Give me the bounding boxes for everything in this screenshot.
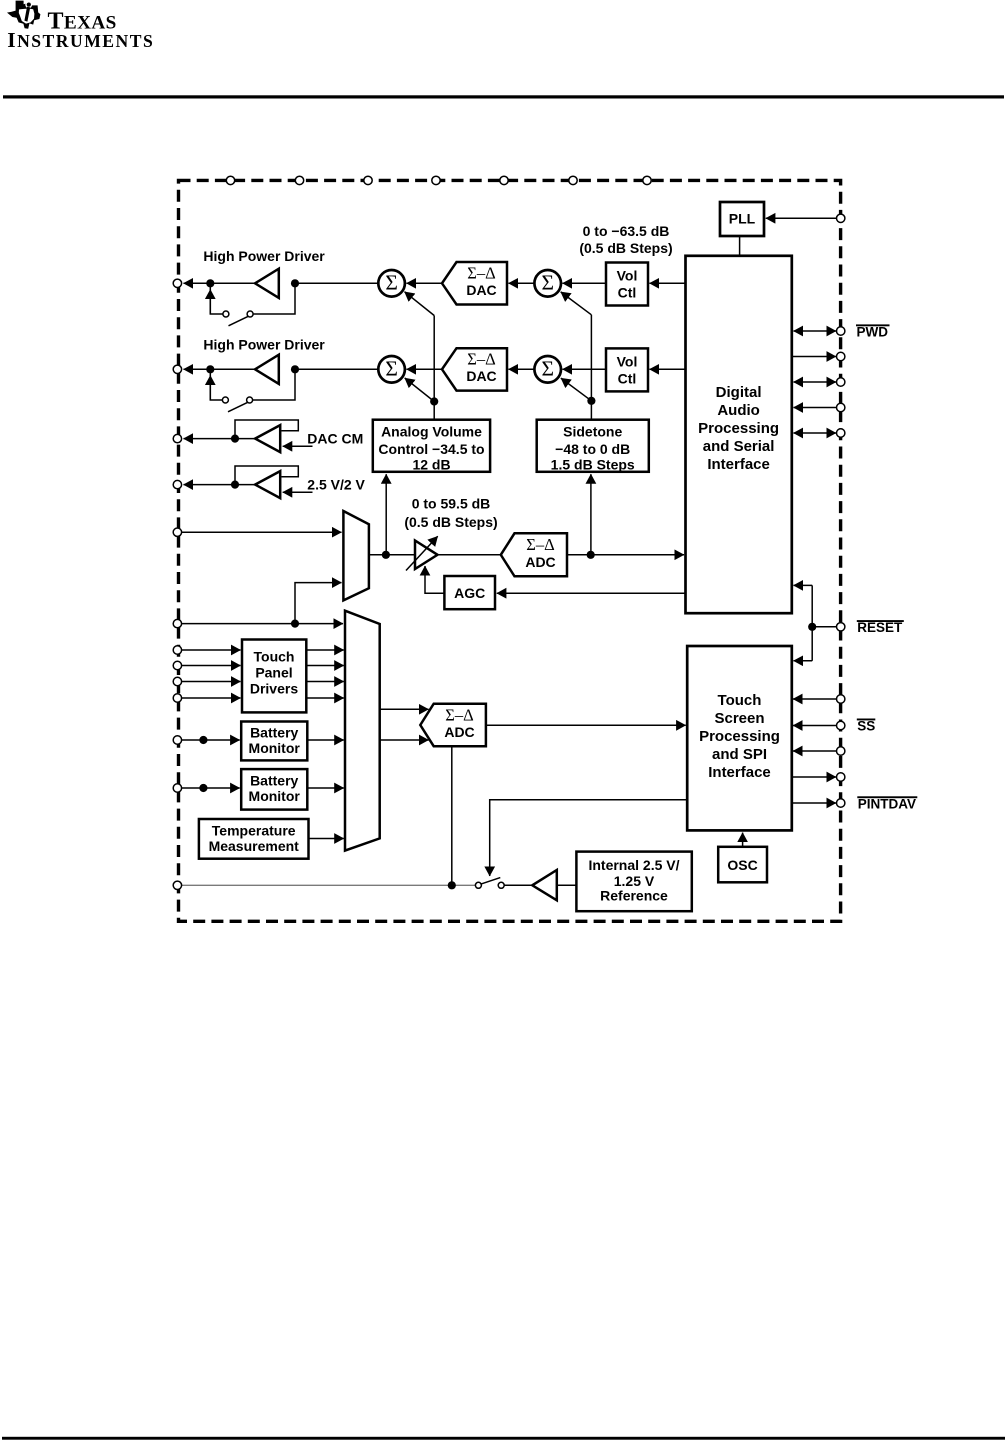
bottom horizontal rule [2,1437,1005,1440]
svg-text:PINTDAV: PINTDAV [858,796,916,811]
wire: right pin to PLL [766,217,836,219]
sidetone diagonal to summer U4 [561,378,592,401]
dashed chip boundary [179,180,841,921]
wire: TS box to switch select arrow [490,800,688,876]
high power driver 1 amplifier [255,269,279,298]
BM1 input wire [181,739,240,741]
overline: PWD [856,324,890,326]
wire: OSC to TS box [742,833,744,847]
input mux M2 [345,611,380,851]
svg-text:High Power Driver: High Power Driver [203,337,325,353]
svg-text:PWD: PWD [857,325,889,340]
svg-text:Analog Volume: Analog Volume [381,423,482,439]
Vol Ctl 2 box [606,348,648,391]
svg-text:Σ: Σ [385,270,398,294]
node: branch to mux M1 [291,620,299,628]
svg-text:(0.5 dB Steps): (0.5 dB Steps) [404,514,497,530]
wire: mux M1 out to PGA [369,554,415,556]
TPD input wires [181,649,241,651]
switch S1 blade [229,316,250,326]
svg-text:Sidetone: Sidetone [563,423,622,439]
svg-text:ADC: ADC [444,724,474,740]
OSC box [718,847,767,883]
switch S2 feed arrow up [209,376,211,401]
switch S1 (bypass) wire down [210,285,223,314]
wire: DAP to VolCtl2 [650,368,686,370]
input mux M1 [343,511,369,600]
left boundary pins [173,279,181,889]
svg-text:SS: SS [857,719,875,734]
overline: RESET [857,620,904,622]
wire: PLL to DAP [739,236,741,256]
node: HPD1 input junction [206,279,214,287]
sigma-delta DAC2 [442,348,507,390]
wire: buffer out to left pin [184,438,236,440]
wire: VolCtl1 to summer U2 [563,282,607,284]
RESET net [812,626,836,628]
svg-text:Battery: Battery [250,725,298,741]
BM2 input wire [181,787,240,789]
DAP output wire [792,356,836,358]
sidetone diagonal to summer U2 [561,292,592,315]
switch S2 blade [228,402,249,412]
node: sidetone junction [587,397,595,405]
svg-text:Σ–Δ: Σ–Δ [467,264,495,283]
Battery Monitor 2 box [241,769,307,810]
svg-text:Interface: Interface [707,456,770,473]
node: HPD1 output junction [291,279,299,287]
svg-text:and SPI: and SPI [712,746,767,763]
svg-text:Σ–Δ: Σ–Δ [445,705,473,724]
TI logo bug (Texas state with ti) [7,1,40,29]
arrow into AVC bottom [385,474,387,555]
node: 2.5V buffer output junction [231,481,239,489]
wire: ADC1 to DAP box [567,554,684,556]
node: AVC pickoff [382,551,390,559]
switch S1 feed arrow up [209,290,211,315]
svg-text:Touch: Touch [718,692,762,709]
arrow into Sidetone bottom [590,474,592,555]
switch S1 contact a [223,311,229,317]
svg-text:Temperature: Temperature [212,823,296,839]
node: HPD2 output junction [291,365,299,373]
svg-text:Ctl: Ctl [618,371,637,387]
Internal Reference box [576,852,691,912]
svg-text:PLL: PLL [729,211,756,227]
switch S1 wire to output [253,285,295,314]
switch S2 contact b [247,397,253,403]
svg-text:RESET: RESET [857,620,903,635]
TPD output wires to mux M2 [306,649,344,651]
wire: PGA to ADC1 [438,554,501,556]
svg-text:Processing: Processing [698,420,779,437]
PLL box [720,202,764,236]
wire: DAC1 to summer U1 [407,282,443,284]
BM1 output wire [307,739,344,741]
top horizontal rule [3,95,1004,98]
svg-text:Touch: Touch [254,649,295,665]
svg-text:Σ–Δ: Σ–Δ [467,350,495,369]
svg-text:Vol: Vol [617,268,638,284]
svg-text:DAC CM: DAC CM [307,431,363,447]
svg-text:Ctl: Ctl [618,285,637,301]
wire: DAP to AGC [497,592,686,594]
Sidetone box [537,420,649,472]
wire: summer U2 to DAC1 [509,282,535,284]
svg-text:OSC: OSC [727,857,757,873]
Digital Audio Processing box [686,256,792,613]
wires: mux M2 to ADC2 [380,708,429,710]
summer U4 row2 [534,356,561,383]
wire to amp [235,438,255,440]
svg-text:Monitor: Monitor [249,740,301,756]
A1 input arrow [283,445,313,447]
switch S2 wire to output [253,371,295,400]
svg-text:1.5 dB Steps: 1.5 dB Steps [551,457,635,473]
overline: SS [857,719,876,721]
wire: switch to ref buffer [504,884,532,886]
TS input wire [793,750,836,752]
sigma-delta DAC1 [442,262,507,305]
wire: sum to driver [295,368,378,370]
Temperature Measurement box [199,819,309,859]
svg-text:Processing: Processing [699,728,780,745]
Vol Ctl 1 box [606,263,648,306]
svg-text:Interface: Interface [708,764,771,781]
svg-text:Measurement: Measurement [209,838,300,854]
svg-text:DAC: DAC [466,368,496,384]
A2 feedback loop [235,466,298,485]
ti letters negative space [19,1,35,23]
AVC diagonal to summer U3 [405,378,435,402]
summer U1 row1 [378,270,405,297]
A1 feedback loop [235,420,298,439]
svg-text:Screen: Screen [714,710,764,727]
Touch Panel Drivers box [242,640,306,713]
wire: DAP to VolCtl1 [650,282,686,284]
Analog Volume Control box [373,420,490,472]
svg-text:Battery: Battery [250,773,298,789]
TEXAS INSTRUMENTS wordmark [7,9,154,53]
switch S2 contact a [222,397,228,403]
svg-text:DAC: DAC [466,282,496,298]
wire: ADC2 to Touch Screen box [486,724,686,726]
svg-text:0 to 59.5 dB: 0 to 59.5 dB [412,496,491,512]
sidetone vertical feed [590,315,592,420]
A2 input arrow [283,491,313,493]
svg-text:Σ: Σ [541,270,554,294]
sigma-delta ADC2 [420,704,486,747]
node: ADC2 ref junction [448,881,456,889]
Touch Screen Processing box [687,646,792,830]
TS input wire [793,698,836,700]
PWD bidirectional wire [794,330,837,332]
svg-text:Reference: Reference [600,887,668,903]
wire: HPD2 output to left pin [184,368,211,370]
node: AVC junction [430,397,438,405]
overline: PINTDAV [857,796,917,798]
node: RESET junction [808,623,816,631]
PINTDAV output wire [792,802,836,804]
summer U3 row2 [378,356,405,383]
PGA amplifier [415,541,438,570]
node: HPD2 input junction [206,365,214,373]
VREF rail wire (left, grey) [182,884,475,886]
svg-text:12 dB: 12 dB [412,457,450,473]
wire to amp [235,484,255,486]
wire: AGC to PGA gain arrow [425,566,444,593]
Battery Monitor 1 box [241,722,307,761]
wire: ref box to buffer [557,884,577,886]
node: sidetone pickoff [587,551,595,559]
wire: junction to driver input [210,368,255,370]
wire: DAC2 to summer U3 [407,368,443,370]
AVC vertical feed [433,316,435,420]
PGA variable-gain arrow [406,536,438,570]
svg-text:and Serial: and Serial [703,438,775,455]
top boundary pins [226,176,651,184]
wire: VolCtl2 to summer U4 [563,368,607,370]
svg-text:Drivers: Drivers [250,681,298,697]
sigma-delta ADC1 [501,533,567,576]
BM2 output wire [307,787,344,789]
wire: ADC2 down to VREF rail [451,746,453,885]
high power driver 2 amplifier [255,355,279,384]
DAP bidirectional wire [794,381,837,383]
svg-text:Σ: Σ [385,356,398,380]
svg-text:0 to −63.5 dB: 0 to −63.5 dB [583,223,670,239]
switch S2 wire down [210,371,222,400]
switch S3 contact b [498,882,504,888]
TS output wire [792,776,836,778]
wire: sum to driver [295,282,378,284]
switch S3 contact a [475,882,481,888]
wire: left pin to mux M1 input 1 [181,531,342,533]
svg-text:Panel: Panel [255,665,292,681]
svg-text:Control −34.5 to: Control −34.5 to [378,441,484,457]
AGC box [444,576,495,609]
AVC diagonal to summer U1 [405,292,435,316]
op-amp buffer A1 [255,425,280,452]
wire: left pin to mux M2 input 1 [181,623,343,625]
op-amp buffer A2 [255,471,280,498]
node: DAC CM output junction [231,435,239,443]
svg-text:(0.5 dB Steps): (0.5 dB Steps) [579,240,672,256]
node: BM2 tap [199,784,207,792]
wire: buffer out to left pin [184,484,236,486]
DAP input wire [794,407,837,409]
wire: junction to driver input [210,282,255,284]
svg-text:Monitor: Monitor [249,788,301,804]
svg-text:Digital: Digital [716,384,762,401]
svg-text:Σ: Σ [541,356,554,380]
summer U2 row1 [534,270,561,297]
switch S3 blade [481,878,501,885]
svg-text:INSTRUMENTS: INSTRUMENTS [7,28,154,52]
right boundary pins [837,214,845,807]
node: BM1 tap [199,736,207,744]
svg-text:2.5 V/2 V: 2.5 V/2 V [307,477,365,493]
svg-text:Audio: Audio [717,402,760,419]
svg-text:Vol: Vol [617,354,638,370]
wire: summer U4 to DAC2 [509,368,535,370]
svg-text:ADC: ADC [525,554,555,570]
SS input wire [793,725,836,727]
svg-text:High Power Driver: High Power Driver [203,248,325,264]
svg-text:Internal 2.5 V/: Internal 2.5 V/ [588,857,679,873]
svg-text:AGC: AGC [454,585,485,601]
wire: branch to mux M1 input 2 [295,583,342,624]
reference buffer A3 [532,870,557,900]
Temp output wire [309,838,344,840]
svg-text:−48 to 0 dB: −48 to 0 dB [555,441,630,457]
svg-text:Σ–Δ: Σ–Δ [526,535,554,554]
DAP bidirectional wire [794,432,837,434]
wire: HPD1 output to left pin [184,282,211,284]
switch S1 contact b [247,311,253,317]
